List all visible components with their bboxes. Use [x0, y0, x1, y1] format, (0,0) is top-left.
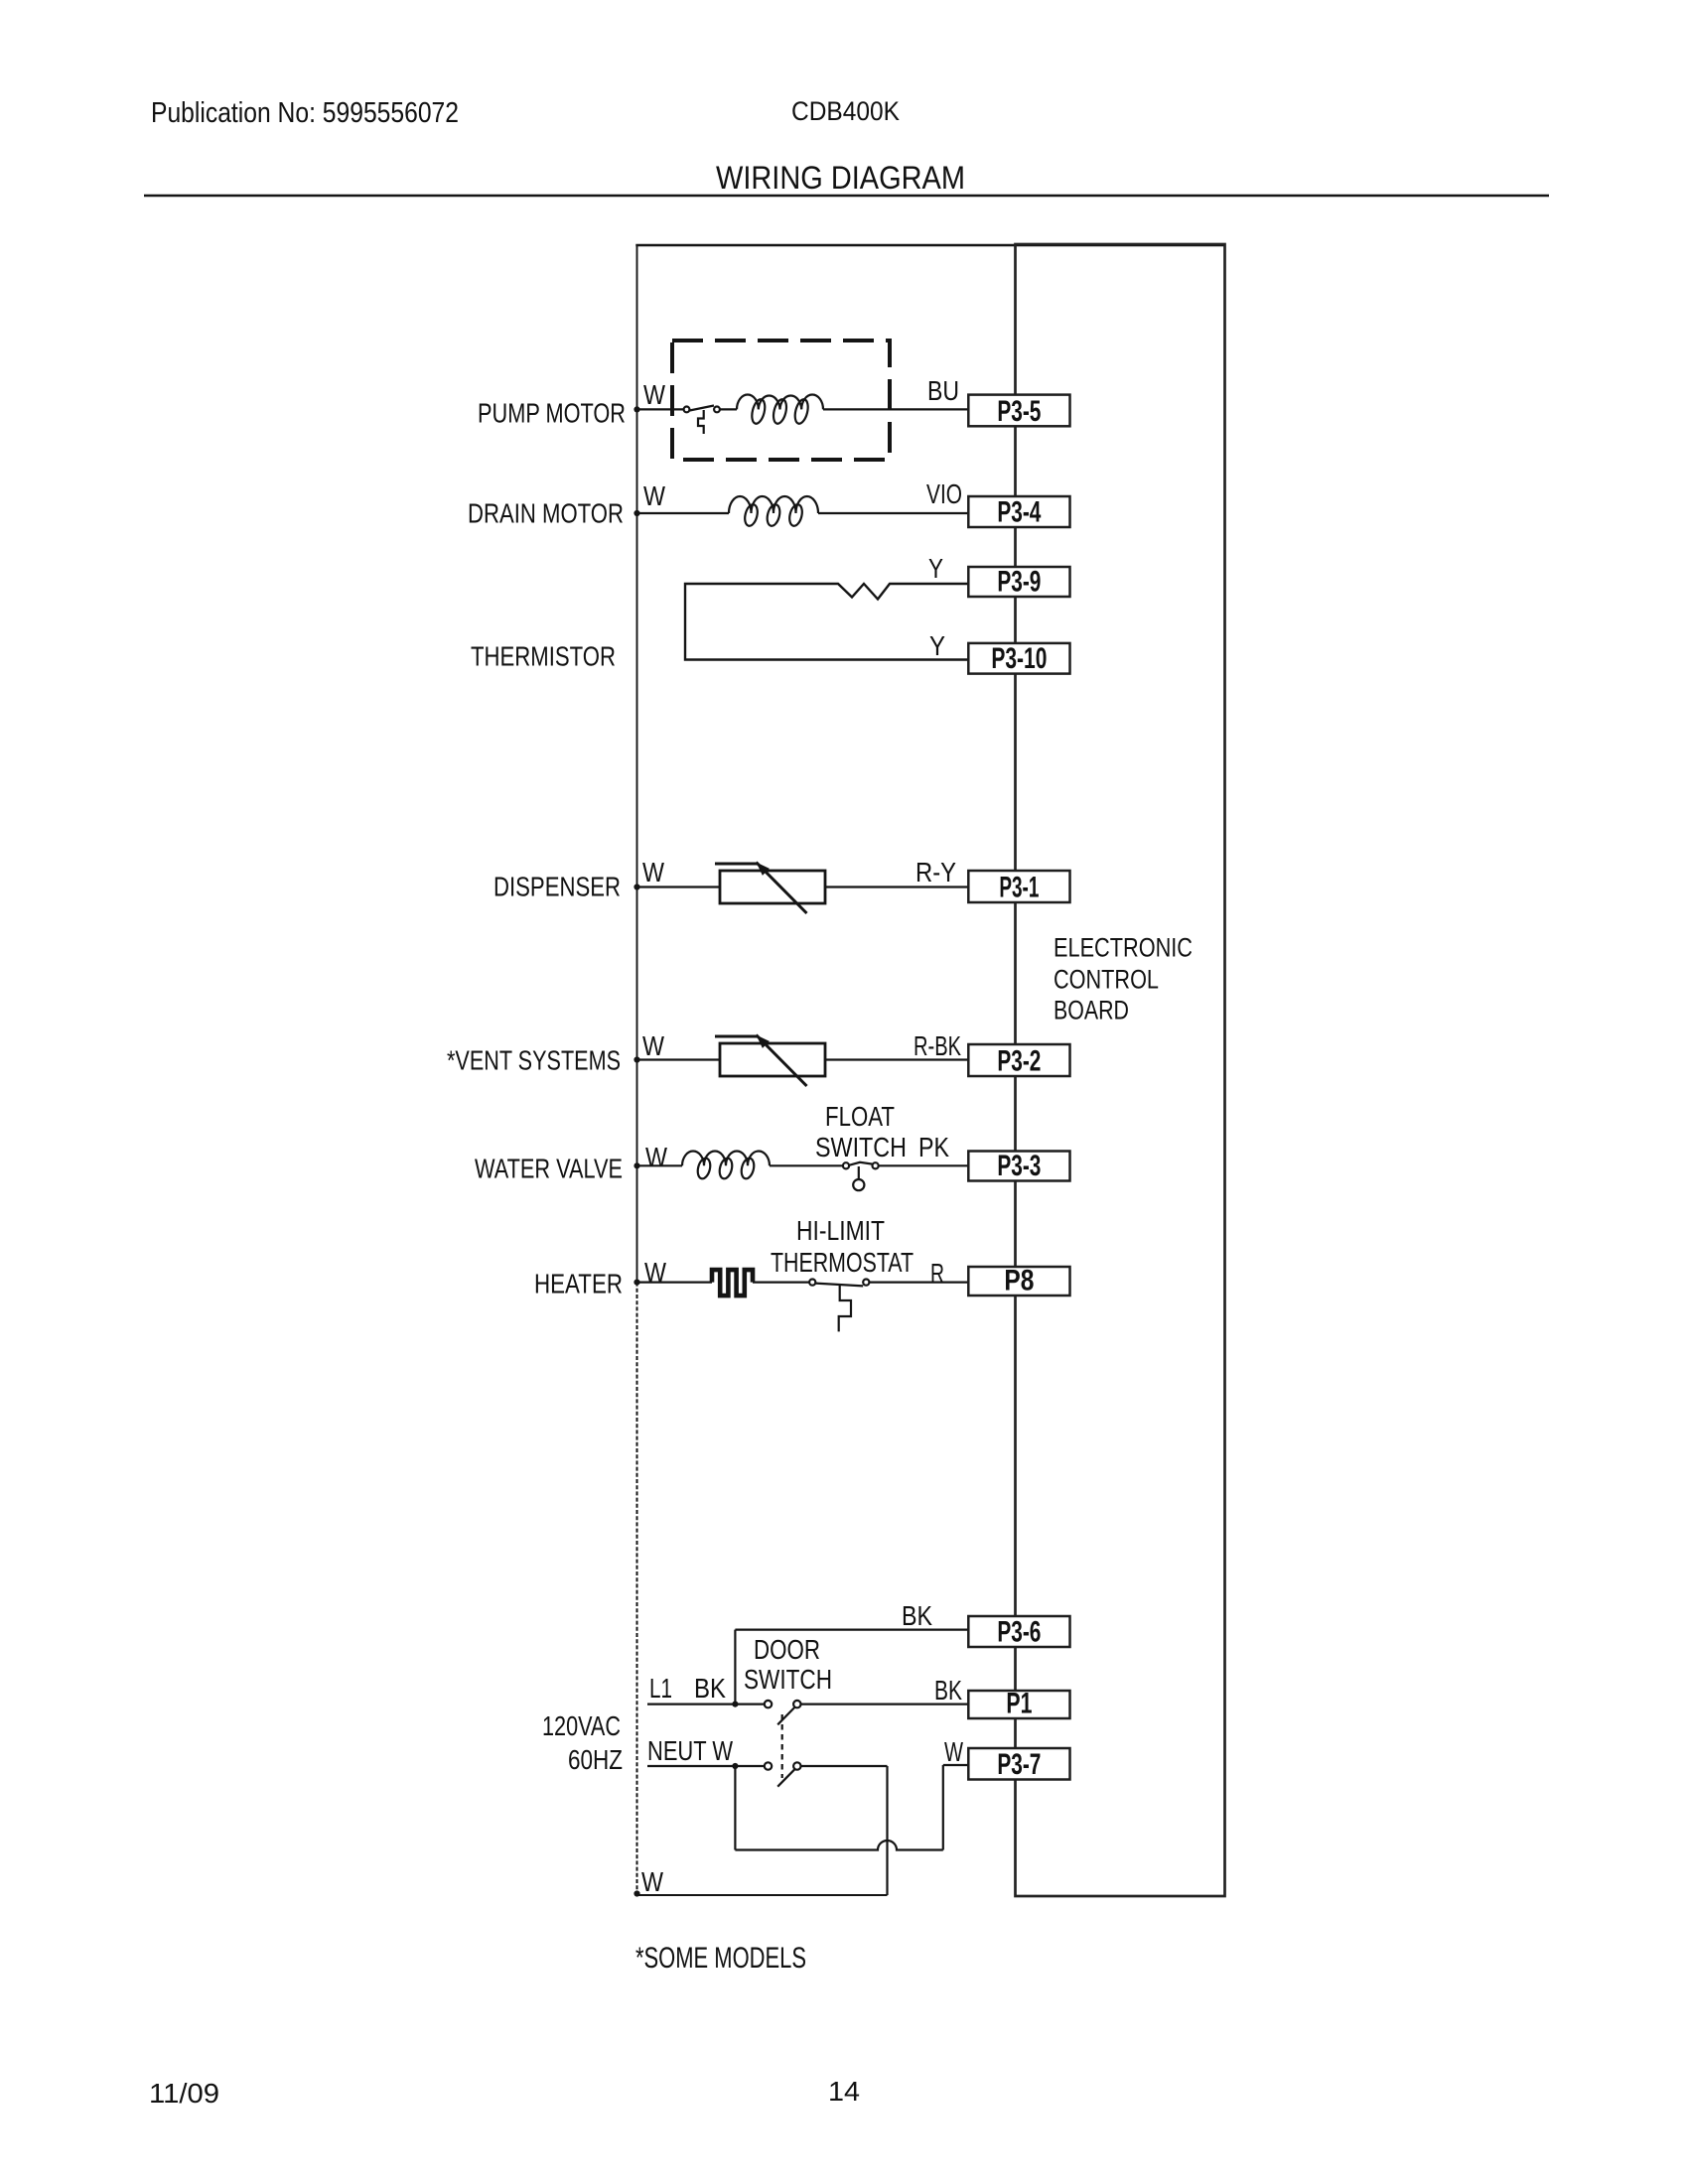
svg-text:P3-1: P3-1 [999, 872, 1039, 904]
svg-text:WIRING DIAGRAM: WIRING DIAGRAM [716, 160, 965, 196]
svg-text:W: W [944, 1736, 963, 1767]
svg-text:SWITCH: SWITCH [744, 1664, 832, 1695]
svg-text:P3-9: P3-9 [997, 566, 1041, 599]
svg-text:SWITCH: SWITCH [815, 1132, 907, 1162]
svg-text:VIO: VIO [926, 478, 962, 509]
svg-text:60HZ: 60HZ [568, 1744, 623, 1775]
svg-text:CONTROL: CONTROL [1054, 965, 1159, 995]
svg-text:W: W [642, 857, 664, 887]
svg-text:R-BK: R-BK [914, 1030, 961, 1061]
svg-text:DISPENSER: DISPENSER [493, 872, 621, 902]
svg-text:DOOR: DOOR [754, 1634, 820, 1665]
svg-text:THERMISTOR: THERMISTOR [471, 641, 616, 672]
svg-text:11/09: 11/09 [149, 2078, 219, 2109]
svg-text:*SOME MODELS: *SOME MODELS [635, 1942, 806, 1975]
svg-text:P3-5: P3-5 [997, 395, 1041, 428]
svg-text:W: W [645, 1142, 667, 1172]
svg-text:BOARD: BOARD [1054, 996, 1129, 1025]
svg-text:BK: BK [694, 1673, 726, 1704]
svg-text:R: R [930, 1258, 944, 1289]
svg-text:Y: Y [928, 553, 943, 584]
svg-text:PUMP MOTOR: PUMP MOTOR [478, 398, 626, 429]
svg-text:L1: L1 [649, 1673, 672, 1704]
svg-text:*VENT SYSTEMS: *VENT SYSTEMS [447, 1045, 621, 1076]
svg-text:HI-LIMIT: HI-LIMIT [796, 1215, 885, 1246]
svg-text:NEUT W: NEUT W [647, 1735, 733, 1766]
svg-text:FLOAT: FLOAT [825, 1101, 895, 1132]
svg-text:P3-10: P3-10 [991, 642, 1047, 675]
svg-text:120VAC: 120VAC [542, 1710, 621, 1741]
svg-text:R-Y: R-Y [915, 857, 956, 887]
svg-text:P1: P1 [1006, 1688, 1032, 1720]
svg-text:BU: BU [927, 375, 959, 406]
svg-text:THERMOSTAT: THERMOSTAT [771, 1247, 914, 1278]
svg-text:P3-3: P3-3 [997, 1150, 1041, 1182]
svg-text:W: W [642, 1030, 664, 1061]
svg-text:P3-2: P3-2 [997, 1045, 1041, 1078]
svg-text:BK: BK [934, 1675, 962, 1706]
svg-text:ELECTRONIC: ELECTRONIC [1054, 933, 1193, 963]
svg-text:P3-7: P3-7 [997, 1748, 1041, 1781]
svg-text:P3-6: P3-6 [997, 1616, 1041, 1649]
svg-text:14: 14 [828, 2076, 860, 2107]
svg-text:W: W [644, 1257, 666, 1288]
svg-text:Publication No: 5995556072: Publication No: 5995556072 [151, 97, 459, 129]
svg-text:DRAIN MOTOR: DRAIN MOTOR [468, 498, 624, 529]
svg-text:HEATER: HEATER [534, 1269, 623, 1299]
svg-text:W: W [641, 1866, 663, 1897]
svg-text:W: W [643, 379, 665, 410]
svg-text:P8: P8 [1004, 1265, 1034, 1297]
svg-text:WATER VALVE: WATER VALVE [475, 1154, 623, 1184]
svg-text:W: W [643, 480, 665, 511]
svg-text:CDB400K: CDB400K [791, 96, 900, 126]
svg-text:P3-4: P3-4 [997, 496, 1041, 529]
svg-text:Y: Y [929, 630, 945, 661]
svg-text:BK: BK [902, 1600, 932, 1631]
svg-text:PK: PK [918, 1132, 949, 1162]
